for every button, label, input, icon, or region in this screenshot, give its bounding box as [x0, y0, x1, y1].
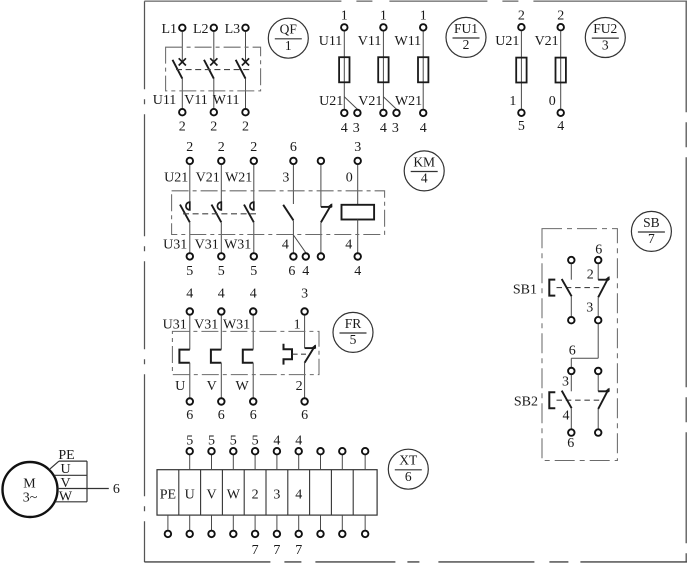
breaker contact cross mark pole 1 [179, 58, 186, 65]
svg-text:2: 2 [252, 487, 259, 502]
svg-text:W11: W11 [213, 93, 240, 108]
svg-text:6: 6 [569, 344, 576, 359]
pushbutton actuator of SB1 [549, 280, 555, 296]
thermal element FR heater 2 [211, 350, 221, 363]
wire from KM auxiliary NC contact [320, 222, 322, 252]
svg-text:2: 2 [250, 140, 257, 155]
terminal 4 of KM auxiliary NO contact branch [303, 253, 310, 260]
svg-text:W11: W11 [394, 34, 421, 49]
breaker contact cross mark pole 3 [242, 58, 249, 65]
svg-text:U21: U21 [495, 34, 519, 49]
svg-text:W: W [235, 379, 249, 394]
svg-text:1: 1 [509, 94, 516, 109]
svg-text:4: 4 [282, 238, 289, 253]
terminal below KM auxiliary NC contact [318, 253, 325, 260]
enclosure border left [144, 1, 146, 562]
wire U21 into KM main pole 1 [189, 165, 191, 203]
XT top terminal cell 8 [317, 448, 324, 455]
svg-text:V11: V11 [184, 93, 208, 108]
wire from SB1 NO contact [570, 296, 572, 316]
wire V from FR heater 2 [220, 363, 222, 398]
terminal 4 of fuse FU1-2 [380, 110, 387, 117]
wire W11 into fuse FU1-3 [422, 31, 424, 109]
svg-text:4: 4 [186, 286, 193, 301]
XT bottom wire cell 5 [254, 515, 256, 530]
function label circle FR/5 (thermal relay FR) [333, 312, 373, 352]
wire into SB1 NO contact [570, 264, 572, 280]
wire from SB2 NO contact [570, 408, 572, 429]
stationary bar of SB1 NC contact [598, 279, 609, 281]
XT top wire cell 10 [364, 455, 366, 470]
svg-text:PE: PE [160, 487, 176, 502]
svg-text:W21: W21 [395, 94, 422, 109]
terminal strip XT divider 3 [221, 470, 223, 515]
wire L2 down to breaker pole [213, 32, 215, 62]
wire into SB2 NC contact [597, 375, 599, 391]
svg-text:U: U [60, 462, 70, 477]
terminal strip XT divider 5 [265, 470, 267, 515]
svg-text:4: 4 [421, 171, 428, 186]
breaker blade QF pole 2 [204, 60, 214, 79]
svg-text:1: 1 [341, 8, 348, 23]
svg-text:1: 1 [420, 8, 427, 23]
XT bottom terminal cell 4 [230, 531, 237, 538]
svg-text:3: 3 [586, 301, 593, 316]
XT bottom terminal cell 1 [165, 531, 172, 538]
svg-text:4: 4 [341, 121, 348, 136]
svg-text:2: 2 [218, 140, 225, 155]
svg-text:4: 4 [250, 286, 257, 301]
breaker blade QF pole 3 [236, 60, 246, 79]
terminal L3 [242, 25, 249, 32]
terminal 6 of KM auxiliary NO contact [290, 158, 297, 165]
contactor arc symbol KM pole 3 [250, 202, 254, 210]
terminal strip XT body [157, 470, 377, 515]
pushbutton linkage dashed line SB1 [557, 287, 604, 289]
XT bottom wire cell 4 [232, 515, 234, 530]
wire from SB2 NC contact [597, 409, 599, 429]
XT top wire cell 7 [298, 455, 300, 470]
terminal 3 of KM coil [354, 158, 361, 165]
pushbutton actuator of SB2 [549, 392, 555, 408]
wire L3 down to breaker pole [245, 32, 247, 62]
svg-text:U11: U11 [153, 93, 177, 108]
motor terminal box diagonal [50, 461, 59, 469]
enclosure border right [685, 1, 687, 562]
wire W11 from breaker pole down [245, 78, 247, 108]
terminal 2 of KM main pole 3 [251, 158, 257, 165]
terminal W of FR heater 3 [250, 398, 257, 405]
wire W31 from KM main pole 3 [253, 222, 255, 252]
terminal 4 of fuse FU1-3 [420, 110, 427, 117]
svg-text:1: 1 [380, 8, 387, 23]
terminal 4 of FR heater 2 [218, 308, 225, 315]
terminal 2 of KM main pole 1 [187, 158, 194, 165]
terminal below SB2 NO contact [568, 429, 575, 436]
svg-text:V: V [206, 487, 216, 502]
svg-text:3: 3 [282, 170, 289, 185]
blade of KM auxiliary NC contact [321, 204, 332, 222]
svg-text:2: 2 [186, 140, 193, 155]
svg-text:3: 3 [602, 37, 609, 52]
svg-text:W31: W31 [223, 317, 250, 332]
svg-text:6: 6 [288, 264, 295, 279]
wire V31 into FR heater 2 [220, 315, 222, 349]
svg-text:U: U [185, 487, 195, 502]
terminal U of FR heater 1 [187, 398, 194, 405]
XT bottom wire cell 10 [364, 515, 366, 530]
svg-text:SB2: SB2 [514, 395, 538, 410]
svg-text:V11: V11 [358, 34, 382, 49]
XT top terminal cell 4 [230, 448, 237, 455]
XT bottom wire cell 2 [189, 515, 191, 530]
svg-text:7: 7 [252, 543, 259, 558]
svg-text:2: 2 [296, 379, 303, 394]
svg-text:2: 2 [518, 8, 525, 23]
fuse FU1-3 body [418, 57, 428, 82]
svg-text:W: W [59, 489, 73, 504]
svg-text:FR: FR [345, 316, 362, 331]
terminal 4 of KM coil [354, 253, 361, 260]
terminal 1 of fuse FU1-2 [380, 24, 387, 31]
svg-text:1: 1 [285, 38, 292, 53]
svg-text:2: 2 [587, 267, 594, 282]
svg-text:4: 4 [563, 409, 570, 424]
svg-text:1: 1 [294, 317, 301, 332]
svg-text:6: 6 [250, 408, 257, 423]
svg-text:4: 4 [354, 264, 361, 279]
wire link down to SB2 NO contact [570, 358, 572, 367]
wire V31 from KM main pole 2 [220, 222, 222, 252]
breaker contact cross mark pole 2 [210, 58, 217, 65]
svg-text:7: 7 [273, 543, 280, 558]
XT bottom terminal cell 5 [252, 531, 259, 538]
svg-text:2: 2 [179, 119, 186, 134]
svg-text:V21: V21 [358, 94, 382, 109]
terminal above SB1 NO contact [568, 257, 575, 264]
svg-text:L1: L1 [161, 22, 177, 37]
terminal 3 of fuse FU1-1 [354, 110, 361, 117]
breaker QF boundary box (dash-dot) [166, 47, 261, 91]
wire into SB2 NO contact [570, 375, 572, 391]
XT top terminal cell 6 [274, 448, 281, 455]
svg-text:V: V [207, 379, 217, 394]
breaker QF mechanical linkage (dashed) [176, 69, 250, 71]
terminal 6 below KM auxiliary NO contact [290, 253, 297, 260]
svg-text:SB1: SB1 [513, 283, 537, 298]
wire into KM auxiliary NC contact [320, 165, 322, 207]
function label circle QF/1 (circuit breaker QF) [268, 18, 308, 58]
svg-text:4: 4 [420, 121, 427, 136]
fuse FU1-1 body [339, 57, 349, 82]
blade of SB2 NO contact [562, 391, 572, 409]
svg-text:3: 3 [301, 286, 308, 301]
svg-text:6: 6 [567, 436, 574, 451]
svg-text:6: 6 [405, 469, 412, 484]
svg-text:4: 4 [380, 121, 387, 136]
terminal above SB1 NC contact [595, 257, 602, 264]
terminal 2 of fuse FU2-1 [518, 24, 525, 31]
svg-text:5: 5 [208, 433, 215, 448]
wire from FR NC contact [304, 363, 306, 398]
terminal of fuse FU2-2 [557, 110, 564, 117]
terminal below SB1 NC contact [595, 317, 602, 324]
wire W31 into FR heater 3 [252, 315, 254, 349]
wire from SB1 NC contact [597, 297, 599, 316]
svg-text:U11: U11 [319, 34, 343, 49]
blade of SB1 NO contact [562, 279, 572, 296]
svg-text:5: 5 [518, 119, 525, 134]
terminal V of FR heater 2 [218, 398, 225, 405]
terminal of fuse FU2-1 [518, 110, 525, 117]
svg-text:5: 5 [252, 433, 259, 448]
svg-text:U31: U31 [163, 238, 187, 253]
wire W21 into KM main pole 3 [253, 165, 255, 203]
contactor KM mechanical linkage (dashed) [183, 213, 256, 215]
terminal 1 of fuse FU1-3 [420, 24, 427, 31]
thermal element FR heater 3 [243, 350, 253, 363]
svg-text:L2: L2 [193, 22, 209, 37]
terminal 2 of fuse FU2-2 [557, 24, 564, 31]
svg-text:V21: V21 [535, 34, 559, 49]
terminal above SB2 NC contact [595, 368, 602, 375]
stationary bar of FR NC contact [305, 347, 316, 349]
terminal strip XT divider 6 [287, 470, 289, 515]
svg-text:3: 3 [354, 140, 361, 155]
XT top wire cell 8 [320, 455, 322, 470]
wire 3 into KM auxiliary NO contact [292, 165, 294, 204]
svg-text:3~: 3~ [23, 490, 38, 505]
svg-text:6: 6 [113, 482, 120, 497]
svg-text:KM: KM [413, 154, 435, 169]
terminal 4 of fuse FU1-1 [341, 110, 348, 117]
wire into SB1 NC contact [597, 264, 599, 280]
terminal strip XT divider 1 [178, 470, 180, 515]
function label circle SB/7 (push buttons SB) [631, 211, 671, 251]
contactor coil KM [342, 205, 375, 220]
stationary bar of KM auxiliary NC contact [321, 206, 332, 208]
svg-text:V21: V21 [196, 170, 220, 185]
XT bottom wire cell 1 [167, 515, 169, 530]
svg-text:4: 4 [295, 433, 302, 448]
blade of SB1 NC contact [598, 277, 609, 297]
XT bottom terminal cell 10 [362, 531, 369, 538]
wire U11 into fuse FU1-1 [343, 31, 345, 109]
motor terminal box bottom edge [56, 501, 88, 503]
function label circle FU2/3 (fuse group FU2) [585, 18, 625, 58]
terminal 2 of KM main pole 2 [218, 158, 225, 165]
terminal strip XT divider 8 [330, 470, 332, 515]
XT bottom terminal cell 8 [317, 531, 324, 538]
XT top wire cell 3 [211, 455, 213, 470]
svg-text:5: 5 [218, 264, 225, 279]
svg-text:3: 3 [392, 121, 399, 136]
terminal L1 [179, 25, 186, 32]
motor terminal box top edge [59, 460, 87, 462]
wire into FR NC contact [304, 315, 306, 348]
wire V21 into fuse FU2-2 [560, 31, 562, 109]
stationary bar of SB2 NC contact [598, 390, 609, 392]
svg-text:XT: XT [399, 453, 418, 468]
terminal above KM auxiliary NC contact [318, 158, 325, 165]
terminal below SB2 NC contact [595, 429, 602, 436]
XT bottom terminal cell 7 [295, 531, 302, 538]
svg-text:U21: U21 [319, 94, 343, 109]
function label circle XT/6 (terminal strip XT) [388, 449, 428, 489]
XT top terminal cell 3 [208, 448, 215, 455]
svg-text:W: W [227, 487, 241, 502]
XT top wire cell 2 [189, 455, 191, 470]
contactor arc symbol KM pole 1 [186, 202, 190, 210]
blade of SB2 NC contact [598, 389, 609, 409]
blade of FR NC contact [305, 346, 316, 363]
contactor blade KM pole 1 [180, 205, 190, 223]
terminal 5 of KM main pole 1 [187, 253, 194, 260]
svg-text:6: 6 [595, 242, 602, 257]
svg-text:2: 2 [210, 119, 217, 134]
svg-text:2: 2 [242, 119, 249, 134]
svg-text:PE: PE [58, 448, 74, 463]
XT bottom terminal cell 3 [208, 531, 215, 538]
wire U from FR heater 1 [189, 363, 191, 398]
svg-text:7: 7 [295, 543, 302, 558]
push button station SB boundary box (dash-dot) [542, 229, 617, 461]
function label circle KM/4 (contactor KM) [404, 151, 444, 191]
svg-text:4: 4 [345, 238, 352, 253]
XT bottom terminal cell 2 [186, 531, 193, 538]
svg-text:6: 6 [290, 140, 297, 155]
terminal 5 of KM main pole 3 [251, 253, 257, 260]
svg-text:4: 4 [302, 264, 309, 279]
XT bottom terminal cell 6 [274, 531, 281, 538]
terminal strip XT divider 2 [200, 470, 202, 515]
terminal strip XT divider 9 [352, 470, 354, 515]
XT top terminal cell 7 [295, 448, 302, 455]
terminal V11 (wire 2) [211, 109, 218, 116]
branch wire to terminal 3 of fuse FU1-1 [344, 97, 357, 109]
svg-text:U21: U21 [164, 170, 188, 185]
thermal trip actuator symbol of FR [284, 344, 293, 365]
wire V11 into fuse FU1-2 [382, 31, 384, 109]
XT bottom wire cell 8 [320, 515, 322, 530]
wire 4 from KM auxiliary NO contact [292, 220, 294, 252]
svg-text:QF: QF [280, 22, 298, 37]
wire V11 from breaker pole down [213, 78, 215, 108]
svg-text:2: 2 [557, 8, 564, 23]
svg-text:4: 4 [557, 119, 564, 134]
wire link from SB1 NC contact down [597, 324, 599, 358]
enclosure border top [144, 0, 687, 2]
terminal 3 of fuse FU1-2 [393, 110, 400, 117]
svg-text:7: 7 [648, 231, 655, 246]
svg-text:5: 5 [230, 433, 237, 448]
svg-text:4: 4 [295, 487, 302, 502]
wire U11 from breaker pole down [181, 78, 183, 108]
terminal L2 [211, 25, 218, 32]
XT top terminal cell 5 [252, 448, 259, 455]
terminal 4 of FR heater 3 [250, 308, 257, 315]
svg-text:6: 6 [186, 408, 193, 423]
svg-text:M: M [23, 476, 36, 491]
thermal relay FR boundary box (dash-dot) [172, 331, 319, 374]
terminal 4 of FR heater 1 [187, 308, 194, 315]
XT top terminal cell 2 [186, 448, 193, 455]
trip linkage dashed line FR [293, 353, 309, 355]
svg-text:5: 5 [350, 332, 357, 347]
blade of KM auxiliary NO contact [283, 205, 293, 221]
terminal strip XT divider 7 [309, 470, 311, 515]
breaker blade QF pole 1 [173, 60, 183, 79]
XT bottom terminal cell 9 [339, 531, 346, 538]
svg-text:W21: W21 [225, 170, 252, 185]
svg-text:5: 5 [186, 433, 193, 448]
motor terminal box row line V/W [58, 488, 88, 490]
XT top terminal cell 10 [362, 448, 369, 455]
enclosure border bottom [144, 561, 687, 563]
fuse FU2-2 body [556, 58, 566, 83]
svg-text:3: 3 [562, 375, 569, 390]
motor terminal box row line U/V [55, 474, 88, 476]
svg-text:L3: L3 [225, 22, 241, 37]
branch wire to terminal 3 of fuse FU1-2 [383, 97, 396, 109]
XT bottom wire cell 7 [298, 515, 300, 530]
wire link horizontal segment (net 6) [571, 357, 598, 359]
terminal strip XT divider 4 [243, 470, 245, 515]
svg-text:SB: SB [643, 215, 660, 230]
wire U31 into FR heater 1 [189, 315, 191, 349]
svg-text:3: 3 [353, 121, 360, 136]
pushbutton linkage dashed line SB2 [557, 399, 604, 401]
svg-text:4: 4 [273, 433, 280, 448]
fuse FU2-1 body [516, 58, 526, 83]
wire U21 into fuse FU2-1 [520, 31, 522, 109]
wire L1 down to breaker pole [181, 32, 183, 62]
motor M circle [3, 462, 58, 517]
svg-text:4: 4 [218, 286, 225, 301]
contactor blade KM pole 3 [244, 205, 254, 223]
XT top wire cell 5 [254, 455, 256, 470]
svg-text:U: U [175, 379, 185, 394]
motor terminal box right edge [86, 461, 88, 502]
wire V21 into KM main pole 2 [220, 165, 222, 203]
svg-text:5: 5 [186, 264, 193, 279]
terminal below FR NC contact [301, 398, 308, 405]
wire W from FR heater 3 [252, 363, 254, 398]
branch wire to terminal 4 of KM auxiliary NO contact [293, 235, 305, 253]
svg-text:V31: V31 [195, 238, 219, 253]
fuse FU1-2 body [378, 57, 388, 82]
XT bottom wire cell 6 [276, 515, 278, 530]
terminal W11 (wire 2) [242, 109, 249, 116]
contactor arc symbol KM pole 2 [217, 202, 221, 210]
function label circle FU1/2 (fuse group FU1) [446, 17, 486, 57]
wire 4 from KM coil [357, 220, 359, 253]
svg-text:2: 2 [463, 37, 470, 52]
terminal 5 of KM main pole 2 [218, 253, 225, 260]
wire U31 from KM main pole 1 [189, 222, 191, 252]
motor cable wire to node 6 [87, 488, 109, 490]
wire 0 into KM coil [357, 165, 359, 205]
XT bottom wire cell 9 [341, 515, 343, 530]
svg-text:5: 5 [250, 264, 257, 279]
svg-text:V31: V31 [194, 317, 218, 332]
XT top terminal cell 9 [339, 448, 346, 455]
thermal element FR heater 1 [179, 350, 189, 363]
XT top wire cell 6 [276, 455, 278, 470]
terminal 3 of FR NC contact [301, 308, 308, 315]
terminal above SB2 NO contact [568, 368, 575, 375]
svg-text:0: 0 [549, 94, 556, 109]
